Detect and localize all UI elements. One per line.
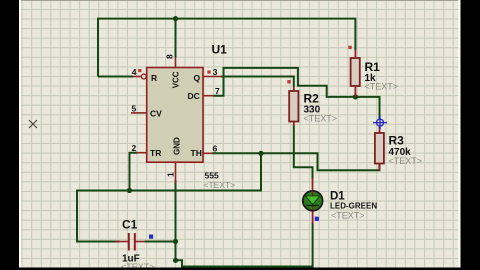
node C1 right: [173, 239, 178, 244]
svg-text:2: 2: [132, 143, 137, 153]
svg-text:<TEXT>: <TEXT>: [304, 114, 338, 124]
red marker R1: [348, 46, 351, 49]
wire R2 bottom to LED anode: [294, 125, 313, 179]
blue marker C1: [149, 235, 153, 239]
svg-text:TH: TH: [191, 148, 202, 158]
svg-text:5: 5: [132, 104, 137, 114]
svg-text:Q: Q: [194, 73, 201, 83]
resistor R3 body: [379, 126, 381, 133]
svg-text:R1: R1: [365, 60, 381, 74]
svg-text:3: 3: [213, 67, 218, 77]
svg-text:R3: R3: [389, 134, 405, 148]
resistor R2 body: [293, 87, 295, 92]
node GND corner: [173, 258, 178, 263]
svg-text:4: 4: [132, 67, 137, 77]
node VCC junction: [173, 16, 178, 21]
wire TH net to R3 bottom: [212, 153, 379, 170]
svg-text:VCC: VCC: [171, 71, 180, 88]
pin 8 VCC stub: [175, 57, 177, 68]
svg-text:<TEXT>: <TEXT>: [365, 82, 399, 92]
svg-text:CV: CV: [150, 109, 162, 119]
LED D1 pins: [312, 178, 314, 191]
svg-text:GND: GND: [172, 137, 181, 155]
node TR tee: [127, 188, 132, 193]
blue marker D1: [315, 217, 319, 221]
capacitor C1 pins: [115, 241, 128, 243]
svg-text:8: 8: [165, 54, 175, 59]
LED D1 body: [303, 191, 323, 211]
pin 5 CV stub: [131, 112, 147, 114]
red marker pin3: [207, 70, 210, 73]
resistor R1 body: [354, 50, 356, 58]
wire GND vertical: [175, 180, 177, 260]
svg-text:R2: R2: [304, 92, 320, 106]
wire C1 right to GND vertical: [145, 241, 176, 243]
letterbox bars: [0, 0, 19, 270]
svg-text:DC: DC: [188, 91, 200, 101]
red marker pin4: [138, 69, 141, 72]
origin marker X: [29, 120, 37, 128]
svg-text:<TEXT>: <TEXT>: [389, 156, 423, 166]
svg-text:U1: U1: [212, 43, 228, 57]
svg-text:6: 6: [213, 144, 218, 154]
pin 6 TH stub: [203, 152, 213, 154]
svg-text:<TEXT>: <TEXT>: [331, 211, 365, 221]
wire VCC pin drop: [175, 19, 177, 58]
svg-text:R: R: [151, 73, 157, 83]
IC U1 555 timer body: [147, 68, 203, 163]
wire Q to R2 top: [221, 77, 294, 88]
node TH tee: [258, 151, 263, 156]
pin 1 GND stub: [175, 162, 177, 183]
pin 4 R stub: [133, 76, 141, 78]
svg-text:LED-GREEN: LED-GREEN: [330, 202, 377, 211]
wire DIS net (pin7 to R1 bottom to R3 top): [213, 68, 380, 120]
svg-text:1: 1: [166, 172, 176, 177]
wire R pin net: [98, 76, 133, 78]
wire bottom TR/TH/C1 rail: [77, 153, 261, 241]
pin 7 DC stub: [203, 95, 214, 97]
node crosshair marker on R3 top: [373, 116, 387, 130]
svg-text:TR: TR: [150, 148, 161, 158]
svg-text:<TEXT>: <TEXT>: [204, 180, 236, 190]
wire VCC top rail: [98, 19, 355, 77]
svg-text:C1: C1: [122, 218, 138, 232]
red marker R2: [287, 80, 290, 83]
pin 2 TR stub: [137, 152, 147, 154]
svg-text:7: 7: [215, 86, 220, 96]
svg-text:555: 555: [205, 171, 219, 181]
wire TR net: [130, 153, 138, 191]
wire GND to LED cathode: [176, 223, 313, 267]
pin 3 Q stub: [203, 76, 222, 78]
capacitor C1 plates: [128, 233, 130, 251]
node R1 bottom: [353, 94, 358, 99]
